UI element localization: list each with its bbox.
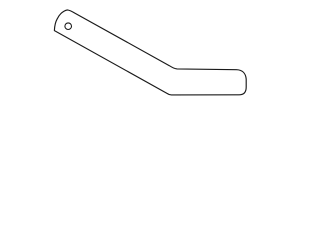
part outline: molding strip xyxy=(0,0,300,106)
wire: part body outline xyxy=(54,10,246,95)
hole xyxy=(65,23,72,30)
